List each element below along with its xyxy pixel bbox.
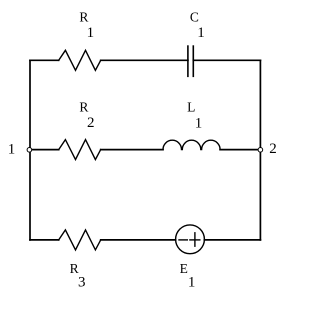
svg-text:2: 2	[269, 141, 277, 157]
resistor R3	[59, 230, 101, 250]
wire C1 to right rail	[193, 59, 260, 61]
source E1	[176, 225, 205, 254]
wire top-left segment	[30, 59, 59, 61]
wire bottom-left segment	[30, 239, 59, 241]
svg-text:R: R	[79, 9, 88, 24]
svg-text:R: R	[79, 99, 88, 114]
label R2	[79, 99, 94, 131]
resistor R1	[59, 50, 101, 70]
svg-text:R: R	[70, 261, 79, 276]
wire L1 to node 2	[220, 149, 260, 151]
svg-text:1: 1	[87, 25, 95, 41]
wire R3 to E1	[101, 239, 176, 241]
label E1	[180, 261, 196, 291]
node 1	[27, 148, 32, 153]
wire R1 to C1	[101, 59, 188, 61]
wire left vertical rail	[29, 60, 31, 240]
wire right vertical rail	[259, 60, 261, 240]
svg-text:1: 1	[197, 25, 205, 41]
label R1	[79, 9, 94, 41]
svg-text:3: 3	[78, 275, 86, 291]
svg-text:L: L	[187, 99, 195, 114]
capacitor C1	[188, 46, 193, 76]
svg-text:E: E	[180, 261, 188, 276]
node 2	[258, 148, 263, 153]
resistor R2	[59, 140, 101, 160]
svg-text:1: 1	[8, 141, 16, 157]
svg-text:C: C	[190, 9, 199, 24]
label L1	[187, 99, 202, 131]
label C1	[190, 9, 205, 41]
svg-text:1: 1	[195, 115, 203, 131]
inductor L1	[163, 140, 220, 149]
svg-text:1: 1	[188, 275, 196, 291]
wire node 1 to R2	[30, 149, 59, 151]
label R3	[70, 261, 86, 291]
wire E1 to right rail	[204, 239, 260, 241]
wire R2 to L1	[101, 149, 163, 151]
svg-text:2: 2	[87, 115, 95, 131]
